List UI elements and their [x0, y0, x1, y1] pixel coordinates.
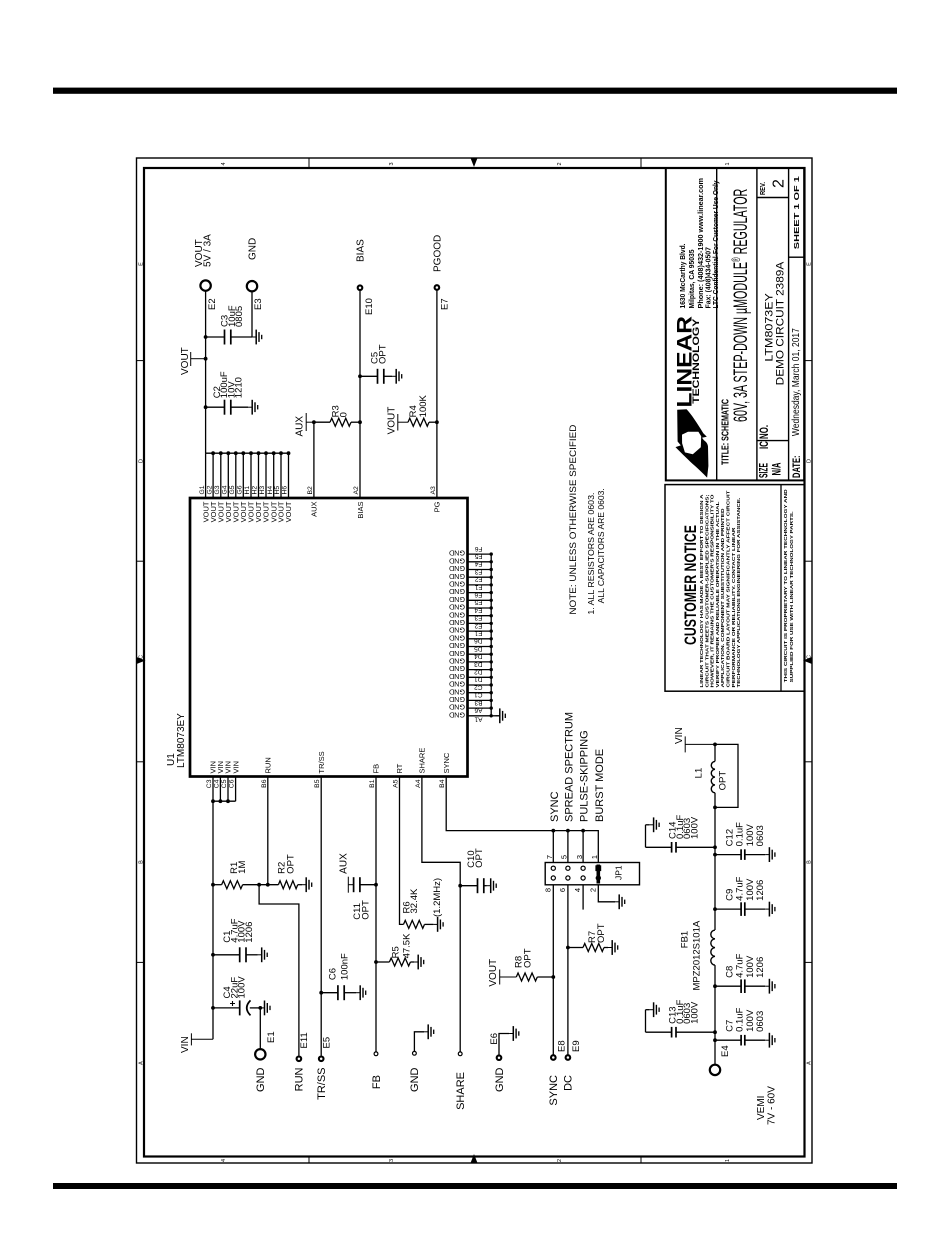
junction VOUT bus: [226, 451, 230, 455]
svg-text:GND: GND: [449, 564, 465, 573]
svg-text:H4: H4: [267, 486, 274, 495]
frame zone ticks: [137, 158, 813, 1163]
svg-text:GND: GND: [449, 657, 465, 666]
svg-text:2: 2: [771, 179, 788, 188]
wire JP1 stub: [567, 831, 569, 863]
terminal E7 PGOOD: [435, 285, 440, 290]
svg-text:VIN: VIN: [180, 1036, 191, 1053]
value label C14 0.1uF 0603 100V: [668, 815, 701, 839]
svg-text:100V: 100V: [689, 816, 700, 839]
svg-text:OPT: OPT: [377, 344, 388, 364]
svg-text:TECHNOLOGY: TECHNOLOGY: [691, 319, 701, 404]
svg-text:1: 1: [590, 855, 599, 859]
svg-text:A2: A2: [353, 486, 360, 495]
svg-text:PULSE-SKIPPING: PULSE-SKIPPING: [579, 730, 591, 822]
svg-text:7: 7: [545, 855, 554, 859]
wire VOUT pin G6: [242, 453, 244, 498]
junction RUN pin: [266, 883, 270, 887]
wire VOUT pin G2: [212, 453, 214, 498]
svg-text:3: 3: [389, 162, 395, 165]
svg-text:DEMO CIRCUIT 2389A: DEMO CIRCUIT 2389A: [774, 261, 786, 385]
svg-text:D4: D4: [474, 653, 483, 660]
svg-text:GND: GND: [449, 587, 465, 596]
svg-text:D3: D3: [474, 660, 483, 667]
junction C12: [713, 853, 717, 857]
junction VOUT bus: [249, 451, 253, 455]
svg-text:60V, 3A STEP-DOWN µMODULE® RE: 60V, 3A STEP-DOWN µMODULE® REGULATOR: [730, 189, 752, 422]
junction VIN tie: [211, 799, 215, 803]
jumper JP1 pin 4: [581, 876, 585, 880]
svg-text:TR/SS: TR/SS: [317, 751, 326, 773]
jumper JP1 pin 8: [551, 876, 555, 880]
frame centre arrows: [137, 158, 813, 1163]
terminal E9 DC: [566, 1055, 571, 1060]
bottom black bar: [53, 1183, 897, 1189]
svg-text:C1: C1: [474, 691, 483, 698]
svg-text:RT: RT: [395, 763, 404, 773]
svg-text:AUX: AUX: [295, 416, 306, 437]
junction C14: [713, 845, 717, 849]
svg-text:8: 8: [543, 888, 552, 892]
svg-text:100V: 100V: [689, 1001, 700, 1024]
capacitor C14: [646, 825, 716, 853]
svg-text:E8: E8: [556, 1040, 567, 1052]
wire GND bus to ground: [491, 715, 500, 717]
wire GND pin B3: [468, 707, 492, 709]
svg-text:BIAS: BIAS: [356, 502, 365, 519]
wire VIN pin C6: [235, 777, 237, 802]
net label VOUT (at R8): [488, 959, 516, 987]
terminal E11 RUN: [297, 1057, 302, 1062]
wire GND test point: [414, 1032, 424, 1052]
svg-text:REV.: REV.: [760, 182, 767, 195]
ground (C1): [258, 947, 268, 962]
customer notice text: [699, 490, 742, 687]
svg-text:GND: GND: [255, 1067, 267, 1092]
svg-text:IC NO.: IC NO.: [757, 425, 771, 449]
svg-text:C3: C3: [206, 779, 213, 788]
jumper JP1 pin 2: [596, 876, 600, 880]
svg-text:H2: H2: [252, 486, 259, 495]
wire RUN pin to divider: [267, 777, 269, 885]
terminal E4 VEMI: [710, 1065, 720, 1075]
svg-text:G4: G4: [222, 485, 229, 494]
wire GND pin F6: [468, 553, 492, 555]
junction GND bus: [490, 606, 493, 609]
resistor R3: [314, 418, 360, 426]
svg-text:E4: E4: [474, 606, 482, 613]
svg-text:SHARE: SHARE: [455, 1072, 467, 1110]
svg-text:GND: GND: [449, 603, 465, 612]
net label AUX (at C11): [338, 853, 353, 893]
svg-text:OPT: OPT: [522, 948, 533, 968]
svg-text:0603: 0603: [755, 1011, 766, 1032]
svg-text:G2: G2: [206, 485, 213, 494]
wire TR/SS net: [320, 777, 322, 1056]
wire VEMI rail (right): [714, 744, 716, 761]
svg-text:A4: A4: [415, 779, 422, 788]
junction VIN tie: [219, 799, 223, 803]
terminal E3 GND: [247, 281, 257, 291]
ground (JP1 pin 2): [615, 894, 625, 909]
wire VOUT pin H1: [250, 453, 252, 498]
junction C2: [204, 405, 208, 409]
junction VOUT bus: [234, 451, 238, 455]
svg-text:0603: 0603: [755, 825, 766, 846]
svg-text:B5: B5: [314, 779, 321, 788]
junction C5: [358, 374, 362, 378]
junction C4/E1/gnd: [258, 1006, 262, 1010]
ground (C6): [356, 985, 366, 1000]
svg-text:5V / 3A: 5V / 3A: [202, 234, 213, 267]
svg-text:OPT: OPT: [285, 854, 296, 874]
svg-text:GND: GND: [449, 687, 465, 696]
svg-text:PGOOD: PGOOD: [432, 235, 443, 272]
svg-text:100nF: 100nF: [339, 953, 350, 980]
svg-text:E1: E1: [474, 630, 482, 637]
test point SHARE: [458, 1052, 462, 1056]
svg-text:GND: GND: [449, 572, 465, 581]
junction R4/PG: [435, 420, 439, 424]
junction C7: [713, 1038, 717, 1042]
svg-text:C: C: [139, 655, 145, 659]
svg-text:GND: GND: [449, 549, 465, 558]
wire GND pin F5: [468, 561, 492, 563]
customer notice divider: [780, 485, 782, 692]
svg-text:SYNC: SYNC: [548, 1075, 560, 1106]
svg-text:APPLICATION. COMPONENT SUBSTI: APPLICATION. COMPONENT SUBSTITUTION AND …: [720, 508, 726, 688]
svg-text:GND: GND: [449, 649, 465, 658]
svg-text:VERIFY PROPER AND RELIABLE OPE: VERIFY PROPER AND RELIABLE OPERATION IN …: [715, 501, 721, 687]
junction VIN tap: [713, 743, 717, 747]
wire E3 to C3: [251, 291, 253, 337]
capacitor C11: [354, 877, 376, 892]
svg-text:2: 2: [557, 162, 563, 165]
svg-text:PG: PG: [433, 501, 442, 512]
resistor R2: [278, 881, 302, 889]
ground (C5): [392, 369, 402, 384]
svg-text:E5: E5: [322, 1037, 333, 1049]
svg-text:FB: FB: [371, 1075, 383, 1089]
junction VOUT bus: [257, 451, 261, 455]
wire GND pin E2: [468, 630, 492, 632]
svg-text:C5: C5: [221, 779, 228, 788]
svg-text:D1: D1: [474, 676, 483, 683]
junction C13: [713, 1030, 717, 1034]
wire GND pin F4: [468, 569, 492, 571]
svg-text:1206: 1206: [755, 880, 766, 901]
svg-text:OPT: OPT: [718, 771, 729, 791]
junction VOUT bus: [287, 451, 291, 455]
wire GND pin C1: [468, 699, 492, 701]
frame zone letters: [139, 162, 813, 1162]
wire JP1 pin 2 to ground: [598, 885, 615, 902]
svg-text:B4: B4: [439, 779, 446, 788]
svg-text:E11: E11: [299, 1032, 310, 1048]
wire JP1 stub: [552, 831, 554, 863]
junction C3: [204, 335, 208, 339]
svg-text:Milpitas, CA 95035: Milpitas, CA 95035: [687, 250, 696, 309]
svg-text:VOUT: VOUT: [180, 347, 191, 375]
svg-text:D5: D5: [474, 645, 483, 652]
wire SYNC net to JP1: [446, 777, 598, 863]
wire GND pin A6: [468, 715, 492, 717]
wire VIN pin tie: [213, 800, 236, 802]
junction GND bus: [490, 599, 493, 602]
svg-text:4: 4: [221, 1159, 227, 1162]
junction GND bus: [490, 614, 493, 617]
svg-text:N/A: N/A: [770, 462, 784, 475]
svg-text:G5: G5: [229, 485, 236, 494]
svg-text:G6: G6: [237, 485, 244, 494]
ground (C3/E3): [252, 330, 262, 345]
ground (GND test point): [424, 1024, 434, 1039]
terminal E8 SYNC: [551, 1055, 556, 1060]
wire VIN rail: [212, 801, 214, 1039]
svg-text:C4: C4: [213, 779, 220, 788]
svg-text:B1: B1: [369, 779, 376, 788]
svg-text:VIN: VIN: [231, 761, 240, 774]
svg-text:100K: 100K: [418, 394, 429, 417]
wire VOUT pin H4: [273, 453, 275, 498]
wire GND pin E6: [468, 599, 492, 601]
ground (R5): [414, 955, 424, 970]
junction GND bus: [490, 629, 493, 632]
svg-text:(1.2MHz): (1.2MHz): [432, 878, 443, 917]
svg-text:E: E: [807, 262, 813, 266]
junction GND bus: [490, 668, 493, 671]
junction L1 loop: [713, 806, 717, 810]
junction GND bus: [490, 560, 493, 563]
ground (R6): [433, 917, 443, 932]
wire RT net: [400, 777, 404, 925]
svg-text:GND: GND: [449, 610, 465, 619]
svg-text:GND: GND: [449, 664, 465, 673]
svg-text:AUX: AUX: [310, 502, 319, 517]
svg-text:GND: GND: [449, 618, 465, 627]
svg-text:H1: H1: [244, 486, 251, 495]
svg-text:E3: E3: [474, 614, 482, 621]
wire VOUT pin H2: [258, 453, 260, 498]
svg-text:100V: 100V: [237, 976, 248, 999]
wire VIN pin C4: [219, 777, 221, 802]
svg-text:A3: A3: [430, 486, 437, 495]
wire GND pin D2: [468, 676, 492, 678]
junction VIN tie: [226, 799, 230, 803]
wire JP1 stub: [582, 831, 584, 863]
terminal E10 BIAS: [358, 285, 363, 290]
svg-text:E6: E6: [474, 591, 482, 598]
svg-text:H6: H6: [282, 486, 289, 495]
junction VOUT bus: [219, 451, 223, 455]
svg-text:E5: E5: [474, 599, 482, 606]
svg-text:TECHNOLOGY APPLICATIONS ENGINE: TECHNOLOGY APPLICATIONS ENGINEERING FOR …: [736, 498, 742, 688]
capacitor C13: [646, 1010, 716, 1038]
svg-text:GND: GND: [449, 710, 465, 719]
svg-text:1: 1: [725, 1159, 731, 1162]
wire FB net: [375, 777, 377, 1052]
svg-text:A: A: [807, 1061, 813, 1065]
svg-text:E2: E2: [207, 298, 218, 310]
wire VOUT pin H6: [288, 453, 290, 498]
svg-text:OPT: OPT: [474, 848, 485, 868]
svg-text:C6: C6: [229, 779, 236, 788]
test point GND: [413, 1051, 417, 1055]
value label C12 0.1uF 100V 0603: [724, 822, 766, 846]
svg-text:SPREAD SPECTRUM: SPREAD SPECTRUM: [563, 712, 575, 822]
svg-text:F1: F1: [475, 583, 483, 590]
wire JP1 pin 6 to E9 (DC): [567, 885, 569, 1055]
svg-text:1: 1: [725, 162, 731, 165]
frame inner border: [144, 168, 805, 1157]
resistor R1: [213, 881, 278, 889]
svg-text:OPT: OPT: [596, 923, 607, 943]
junction R3/BIAS: [358, 420, 362, 424]
svg-text:C6: C6: [328, 968, 339, 980]
svg-text:D6: D6: [474, 637, 483, 644]
test point FB: [374, 1052, 378, 1056]
jumper JP1 pin 5: [566, 866, 570, 870]
svg-text:7V - 60V: 7V - 60V: [767, 1086, 778, 1125]
junction GND bus: [490, 660, 493, 663]
svg-text:32.4K: 32.4K: [409, 888, 420, 913]
svg-text:RUN: RUN: [294, 1067, 306, 1091]
junction C8: [713, 984, 717, 988]
svg-text:F2: F2: [475, 576, 483, 583]
junction GND bus: [490, 676, 493, 679]
value label C13 0.1uF 0603 100V: [668, 999, 701, 1023]
resistor R7: [568, 944, 608, 952]
svg-text:G3: G3: [214, 485, 221, 494]
svg-text:H5: H5: [274, 486, 281, 495]
net label VOUT (output rail): [180, 347, 206, 375]
junction VOUT bus: [241, 451, 245, 455]
svg-text:B6: B6: [261, 779, 268, 788]
wire VOUT pin G3: [220, 453, 222, 498]
junction VOUT bus: [211, 451, 215, 455]
wire SHARE net: [422, 777, 460, 1052]
ground (C14): [649, 817, 659, 832]
ferrite bead FB1: [711, 930, 715, 965]
junction GND bus: [490, 699, 493, 702]
ground (R2): [302, 877, 312, 892]
svg-text:F6: F6: [475, 545, 483, 552]
junction GND bus: [490, 576, 493, 579]
svg-text:1630 McCarthy Blvd.: 1630 McCarthy Blvd.: [678, 244, 687, 309]
svg-text:FB1: FB1: [680, 931, 691, 948]
svg-text:E: E: [139, 262, 145, 266]
svg-text:CUSTOMER NOTICE: CUSTOMER NOTICE: [681, 525, 700, 645]
junction C1: [211, 953, 215, 957]
svg-text:Wednesday, March 01, 2017: Wednesday, March 01, 2017: [791, 328, 802, 436]
jumper JP1 pin 7: [551, 866, 555, 870]
junction GND bus: [490, 706, 493, 709]
value label C7 0.1uF 100V 0603: [724, 1007, 766, 1031]
title block row lines: [717, 168, 805, 480]
capacitor C5: [360, 369, 392, 384]
svg-text:E2: E2: [474, 622, 482, 629]
svg-text:H3: H3: [259, 486, 266, 495]
svg-text:A5: A5: [393, 779, 400, 788]
svg-text:A: A: [139, 1061, 145, 1065]
svg-text:LINEAR TECHNOLOGY HAS MADE A B: LINEAR TECHNOLOGY HAS MADE A BEST EFFORT…: [699, 494, 705, 688]
junction GND bus: [490, 645, 493, 648]
junction SYNC bus: [551, 829, 555, 833]
svg-text:GND: GND: [449, 695, 465, 704]
wire VOUT pin G5: [235, 453, 237, 498]
capacitor C12: [715, 849, 765, 860]
svg-text:B: B: [807, 860, 813, 864]
svg-text:PERFORMANCE OR RELIABILITY. C: PERFORMANCE OR RELIABILITY. CONTACT LINE…: [731, 527, 737, 688]
junction GND bus: [490, 691, 493, 694]
wire GND pin F2: [468, 584, 492, 586]
junction GND bus: [490, 653, 493, 656]
svg-text:OPT: OPT: [360, 900, 371, 920]
logo Linear Technology: [676, 409, 709, 477]
svg-text:VOUT: VOUT: [284, 501, 293, 522]
svg-text:4: 4: [221, 162, 227, 165]
customer notice box: [665, 485, 805, 692]
value label C8 4.7uF 100V 1206: [724, 953, 766, 977]
svg-text:VIN: VIN: [674, 727, 685, 744]
svg-text:BIAS: BIAS: [355, 239, 366, 262]
svg-text:DATE:: DATE:: [791, 456, 803, 479]
junction SYNC bus: [566, 829, 570, 833]
ground (C10): [487, 878, 497, 893]
svg-text:0805: 0805: [234, 306, 245, 327]
svg-text:GND: GND: [449, 626, 465, 635]
resistor R8: [516, 973, 553, 981]
jumper JP1 header: [545, 863, 639, 885]
junction GND bus: [490, 622, 493, 625]
resistor R5: [376, 958, 414, 966]
svg-text:L1: L1: [694, 768, 705, 779]
svg-text:3: 3: [575, 855, 584, 859]
jumper JP1 pin 6: [566, 876, 570, 880]
value label C9 4.7uF 100V 1206: [724, 876, 766, 900]
jumper JP1 shunt 1-2: [596, 865, 600, 884]
svg-text:CIRCUIT BOARD LAYOUT MAY SIGNI: CIRCUIT BOARD LAYOUT MAY SIGNIFICANTLY A…: [726, 490, 732, 687]
svg-text:SHEET 1 OF 1: SHEET 1 OF 1: [792, 176, 801, 249]
terminal E5 TR/SS: [319, 1057, 324, 1062]
wire GND pin E4: [468, 615, 492, 617]
junction R7: [566, 946, 570, 950]
svg-text:GND: GND: [449, 680, 465, 689]
junction VOUT bus: [279, 451, 283, 455]
svg-text:D: D: [807, 459, 813, 463]
svg-text:GND: GND: [449, 703, 465, 712]
svg-text:3: 3: [389, 1159, 395, 1162]
wire VEMI rail (left): [714, 965, 716, 1065]
svg-text:5: 5: [560, 855, 569, 859]
svg-text:VOUT: VOUT: [386, 407, 397, 435]
wire VOUT pin G4: [227, 453, 229, 498]
svg-text:0: 0: [339, 412, 350, 417]
svg-text:1. ALL RESISTORS ARE 0603.: 1. ALL RESISTORS ARE 0603.: [586, 493, 596, 615]
wire GND pin E5: [468, 607, 492, 609]
junction C11: [374, 883, 378, 887]
svg-text:FB: FB: [372, 764, 381, 774]
svg-text:SYNC: SYNC: [549, 791, 561, 822]
svg-text:HOWEVER, IT REMAINS THE CUSTOM: HOWEVER, IT REMAINS THE CUSTOMER'S RESPO…: [710, 494, 716, 687]
capacitor C2: [206, 400, 248, 415]
ground (C8): [765, 979, 775, 994]
wire RUN to E11: [259, 885, 299, 1056]
svg-text:ALL CAPACITORS ARE 0603.: ALL CAPACITORS ARE 0603.: [596, 488, 606, 603]
svg-text:TITLE: SCHEMATIC: TITLE: SCHEMATIC: [720, 399, 731, 465]
svg-text:C2: C2: [474, 683, 483, 690]
capacitor C10: [460, 878, 486, 893]
